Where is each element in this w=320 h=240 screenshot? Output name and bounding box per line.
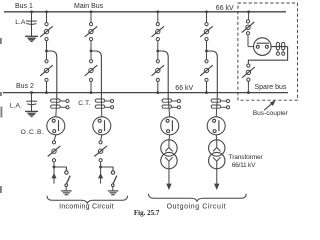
earth-switch branch wire of incoming circuit 2: [101, 167, 113, 171]
circuit 4 (outgoing) wire isolator to tap point: [206, 41, 208, 50]
svg-text:66/11 kV: 66/11 kV: [232, 162, 256, 169]
incoming circuit 1 feeder wire down: [53, 162, 55, 184]
svg-text:Incoming Circuit: Incoming Circuit: [59, 204, 114, 211]
circuit 4 (outgoing) wire from main bus to isolator: [206, 12, 208, 23]
svg-text:O.C.B.: O.C.B.: [21, 129, 45, 136]
arrow pointing to bus-coupler box: [264, 102, 273, 110]
svg-text:66 kV: 66 kV: [216, 5, 234, 12]
incoming feeder arrow (points up) of incoming circuit 2: [98, 173, 103, 179]
earth switch stub wire of incoming circuit 1: [65, 186, 67, 190]
incoming circuit 2 feeder wire down: [100, 162, 102, 184]
earth-switch branch wire of incoming circuit 1: [54, 167, 66, 171]
earth switch blade of incoming circuit 1: [66, 176, 70, 185]
transformer primary winding circle of outgoing circuit 4: [209, 140, 225, 156]
outgoing circuit 3 wire transformer to feeder arrow: [168, 169, 170, 184]
circuit 4 (outgoing) wire tap to isolator 2: [206, 53, 208, 60]
circuit 3 (outgoing) wire isolator 2 to bus 2: [157, 82, 159, 93]
transformer secondary winding circle of outgoing circuit 3: [161, 152, 177, 168]
current transformer C.T. of incoming circuit 2: [95, 99, 113, 109]
bus-coupler oil circuit breaker circle: [253, 38, 271, 56]
svg-text:L.A.: L.A.: [15, 19, 27, 26]
outgoing feeder arrow (points down) of outgoing circuit 3: [166, 184, 171, 190]
star mark inside primary (stem + arms) of outgoing circuit 3: [165, 140, 172, 151]
junction dot bus-coupler on main bus: [247, 10, 250, 13]
bus-coupler current transformer (two loops + terminals): [276, 42, 285, 55]
isolator (bus-2 selector) of circuit 3 (outgoing): [152, 60, 165, 82]
svg-text:Bus-coupler: Bus-coupler: [253, 110, 289, 117]
earth-switch ground of incoming circuit 2: [108, 191, 119, 195]
isolator (bus-1 selector) of circuit 1 (incoming): [40, 23, 53, 41]
bus-coupler wire OCB to right: [271, 46, 288, 48]
main bus (Bus 1) horizontal line: [4, 11, 286, 13]
earth switch stub wire of incoming circuit 2: [112, 186, 114, 190]
incoming circuit 1 wire OCB to isolator: [54, 135, 56, 141]
circuit 2 (incoming) wire from main bus to isolator: [90, 12, 92, 23]
earth switch pivot circle of incoming circuit 2: [112, 184, 115, 187]
junction dot circuit 4 (outgoing) on main bus: [205, 10, 208, 13]
under-brace for outgoing circuits: [149, 194, 247, 201]
circuit 3 (outgoing) tap wire crossing bus 2: [167, 93, 169, 99]
oil circuit breaker O.C.B. of incoming circuit 2: [93, 117, 111, 135]
oil circuit breaker O.C.B. of outgoing circuit 3: [161, 117, 179, 135]
earth switch contact circle of incoming circuit 2: [111, 171, 114, 174]
isolator (bus-1 selector) of circuit 3 (outgoing): [152, 23, 165, 41]
star mark inside primary (stem + arms) of outgoing circuit 4: [213, 140, 220, 151]
svg-text:Outgoing Circuit: Outgoing Circuit: [167, 204, 226, 211]
earth switch contact circle of incoming circuit 1: [65, 171, 68, 174]
circuit 2 (incoming) tap wire crossing bus 2: [100, 93, 102, 99]
line isolator of incoming circuit 1: [48, 141, 61, 162]
circuit 1 (incoming) wire from main bus to isolator: [46, 12, 48, 23]
isolator (bus-2 selector) of circuit 4 (outgoing): [200, 60, 213, 82]
isolator (bus-1 selector) of circuit 4 (outgoing): [200, 23, 213, 41]
svg-text:Fig. 25.7: Fig. 25.7: [134, 209, 160, 217]
ground symbol of LA1: [25, 35, 38, 37]
junction dot circuit 3 (outgoing) on bus 2: [156, 91, 159, 94]
line isolator of incoming circuit 2: [94, 141, 107, 162]
outgoing circuit 3 wire OCB to transformer: [168, 135, 171, 140]
tap bend wire of circuit 2 (incoming): [91, 51, 101, 93]
bus-coupler isolator (bottom): [242, 64, 255, 81]
bus-coupler wire into OCB: [248, 46, 254, 48]
incoming circuit 1 wire CT section: [56, 99, 57, 117]
svg-text:L.A.: L.A.: [10, 103, 22, 110]
circuit 3 (outgoing) wire from main bus to isolator: [157, 12, 159, 23]
junction dot bus-coupler on spare bus: [247, 91, 250, 94]
bus-coupler dashed enclosure box: [238, 3, 298, 100]
earth switch blade of incoming circuit 2: [113, 176, 117, 185]
circuit 3 (outgoing) wire isolator to tap point: [157, 41, 159, 50]
incoming feeder arrow (points up) of incoming circuit 1: [51, 173, 56, 179]
circuit 4 (outgoing) wire isolator 2 to bus 2: [206, 82, 208, 93]
bus-coupler wire to spare bus: [247, 81, 249, 92]
svg-text:Bus 2: Bus 2: [16, 83, 34, 90]
incoming circuit 2 wire OCB to isolator: [101, 135, 102, 141]
junction dot circuit 2 (incoming) on main bus: [90, 10, 93, 13]
tap bend wire of circuit 3 (outgoing): [158, 51, 168, 93]
junction dot circuit 1 (incoming) on bus 2: [45, 91, 48, 94]
feeder junction dot of incoming circuit 1: [53, 166, 56, 169]
ground symbol of LA2: [25, 110, 38, 112]
earth switch pivot circle of incoming circuit 1: [65, 184, 68, 187]
bus-coupler wire from main bus: [248, 12, 250, 20]
oil circuit breaker O.C.B. of incoming circuit 1: [47, 117, 65, 135]
outgoing circuit 3 wire CT section: [168, 99, 170, 117]
bus-coupler wire to OCB: [247, 35, 249, 47]
lightning arrester L.A.2 gap plates: [26, 101, 37, 105]
bus-coupler wire down and back left: [248, 47, 287, 64]
under-brace for incoming circuits: [47, 196, 128, 203]
tap junction dot of circuit 4 (outgoing): [205, 50, 208, 53]
svg-text:C.T.: C.T.: [78, 100, 90, 107]
circuit 1 (incoming) wire isolator to tap point: [46, 41, 48, 50]
incoming circuit 2 wire CT section: [100, 99, 102, 117]
current transformer C.T. of incoming circuit 1: [51, 99, 69, 109]
outgoing circuit 4 wire CT section: [216, 99, 217, 117]
circuit 2 (incoming) wire isolator 2 to bus 2: [90, 82, 92, 93]
circuit 4 (outgoing) tap wire crossing bus 2: [216, 93, 218, 99]
outgoing circuit 4 wire transformer to feeder arrow: [216, 169, 218, 184]
oil circuit breaker O.C.B. of outgoing circuit 4: [207, 117, 225, 135]
outgoing circuit 4 wire OCB to transformer: [215, 135, 218, 140]
earth-switch ground of incoming circuit 1: [61, 191, 72, 195]
transformer secondary winding circle of outgoing circuit 4: [209, 152, 225, 168]
circuit 2 (incoming) wire tap to isolator 2: [90, 53, 92, 60]
isolator (bus-2 selector) of circuit 1 (incoming): [40, 60, 53, 82]
isolator (bus-1 selector) of circuit 2 (incoming): [85, 23, 98, 41]
junction dot circuit 2 (incoming) on bus 2: [90, 91, 93, 94]
star (Y) mark inside secondary of outgoing circuit 4: [213, 157, 220, 168]
lightning arrester L.A. on Bus 1 : wire: [31, 12, 33, 36]
star (Y) mark inside secondary of outgoing circuit 3: [165, 157, 172, 168]
lightning arrester L.A.1 gap plates: [26, 21, 37, 24]
circuit 3 (outgoing) wire tap to isolator 2: [157, 53, 159, 60]
current transformer C.T. of outgoing circuit 3: [162, 99, 180, 109]
svg-text:Transformer: Transformer: [229, 154, 264, 161]
tap bend wire of circuit 1 (incoming): [47, 51, 57, 93]
bus-coupler isolator (top): [242, 20, 255, 35]
tap junction dot of circuit 2 (incoming): [90, 50, 93, 53]
circuit 1 (incoming) tap wire crossing bus 2: [56, 93, 58, 99]
svg-text:Main Bus: Main Bus: [74, 3, 104, 10]
svg-text:Bus 1: Bus 1: [15, 3, 33, 10]
isolator (bus-2 selector) of circuit 2 (incoming): [85, 60, 98, 82]
junction dot LA2 on bus 2: [30, 91, 33, 94]
circuit 2 (incoming) wire isolator to tap point: [90, 41, 92, 50]
svg-text:66 kV: 66 kV: [175, 85, 193, 92]
svg-text:Spare bus: Spare bus: [255, 84, 287, 91]
scan artifact marks at left page edge: [0, 38, 2, 193]
circuit 1 (incoming) wire tap to isolator 2: [46, 53, 48, 60]
transformer primary winding circle of outgoing circuit 3: [161, 140, 177, 156]
junction dot circuit 3 (outgoing) on main bus: [156, 10, 159, 13]
current transformer C.T. of outgoing circuit 4: [211, 99, 229, 109]
junction dot circuit 4 (outgoing) on bus 2: [205, 91, 208, 94]
tap junction dot of circuit 3 (outgoing): [156, 50, 159, 53]
junction dot circuit 1 (incoming) on main bus: [45, 10, 48, 13]
junction dot LA1 on main bus: [30, 10, 33, 13]
tap junction dot of circuit 1 (incoming): [45, 50, 48, 53]
feeder junction dot of incoming circuit 2: [99, 166, 102, 169]
outgoing feeder arrow (points down) of outgoing circuit 4: [214, 184, 219, 190]
Bus 2 / spare bus horizontal line: [3, 92, 288, 94]
circuit 1 (incoming) wire isolator 2 to bus 2: [46, 82, 48, 93]
lightning arrester L.A. on Bus 2 : wire: [31, 93, 33, 111]
tap bend wire of circuit 4 (outgoing): [207, 51, 218, 93]
